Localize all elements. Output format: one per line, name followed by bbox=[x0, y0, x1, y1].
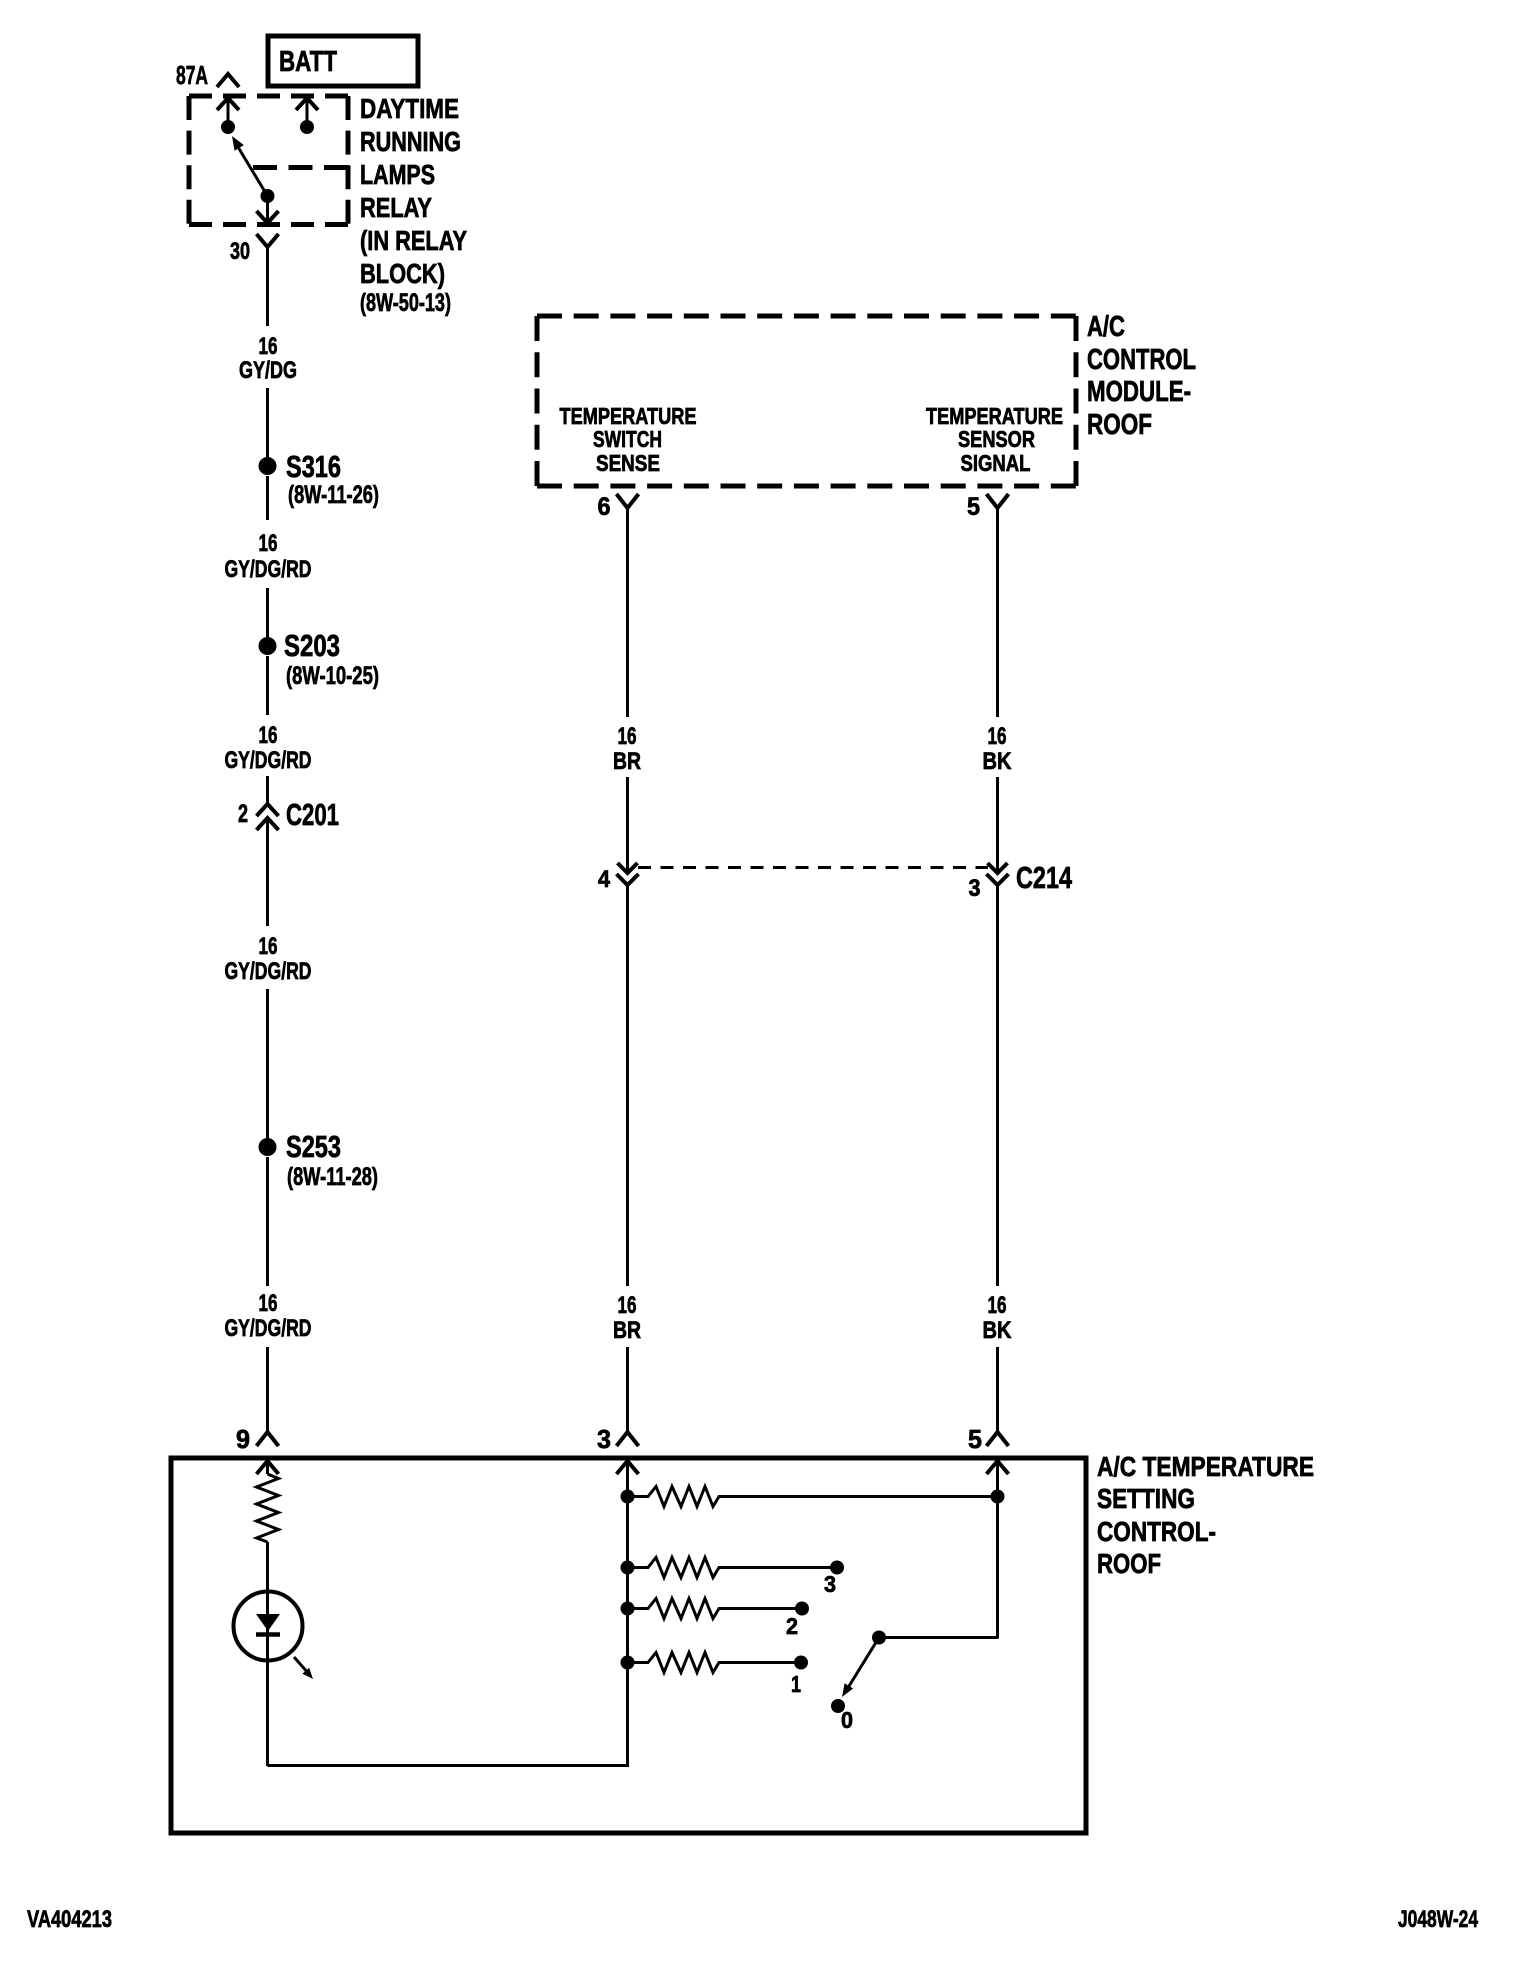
node pin3/R2 bbox=[621, 1490, 635, 1504]
module internal label: temperature switch sense bbox=[560, 403, 697, 476]
wire label 16 BR bbox=[613, 723, 641, 775]
relay battery feed pin arrow bbox=[296, 97, 318, 127]
node pin3/R3 bbox=[621, 1561, 635, 1575]
svg-text:0: 0 bbox=[841, 1707, 853, 1733]
svg-text:GY/DG/RD: GY/DG/RD bbox=[225, 958, 312, 985]
terminal 0 dot bbox=[831, 1699, 845, 1713]
svg-text:SENSOR: SENSOR bbox=[958, 426, 1035, 452]
module internal label: temperature sensor signal bbox=[926, 403, 1063, 476]
connector C214 dashed tie line bbox=[638, 866, 988, 869]
svg-text:30: 30 bbox=[230, 238, 250, 265]
A/C temperature setting control box bbox=[171, 1458, 1086, 1833]
svg-text:RELAY: RELAY bbox=[360, 192, 432, 223]
svg-text:BR: BR bbox=[613, 748, 641, 775]
wire pin30 down bbox=[266, 247, 269, 326]
svg-text:16: 16 bbox=[259, 1290, 278, 1317]
svg-text:BR: BR bbox=[613, 1317, 641, 1344]
svg-text:VA404213: VA404213 bbox=[27, 1906, 112, 1933]
connector C201 (in-line, pin 2) bbox=[238, 797, 339, 926]
node pin3/R5 bbox=[621, 1656, 635, 1670]
pin 5 column wire bbox=[996, 1461, 999, 1639]
box pin 9 terminal bbox=[236, 1424, 279, 1474]
wire label 16 GY/DG/RD bbox=[225, 530, 312, 583]
svg-text:2: 2 bbox=[786, 1613, 798, 1639]
wire label 16 BK bbox=[983, 723, 1013, 775]
resistor R5 (position 1) bbox=[628, 1653, 802, 1673]
rotary switch blade bbox=[842, 1638, 879, 1698]
wire to LED bbox=[266, 1542, 269, 1766]
svg-text:CONTROL: CONTROL bbox=[1087, 344, 1196, 376]
svg-text:16: 16 bbox=[259, 333, 278, 360]
svg-text:GY/DG/RD: GY/DG/RD bbox=[225, 1315, 312, 1342]
svg-text:3: 3 bbox=[824, 1571, 836, 1597]
A/C control module dashed box bbox=[537, 316, 1076, 486]
svg-text:(IN RELAY: (IN RELAY bbox=[360, 225, 467, 256]
module pin 5 terminal chevron bbox=[967, 493, 1009, 521]
svg-text:SWITCH: SWITCH bbox=[593, 426, 662, 452]
box pin 3 terminal bbox=[597, 1424, 639, 1474]
resistor R1 (vertical, pin 9 leg) bbox=[257, 1474, 279, 1542]
box pin 5 terminal bbox=[968, 1424, 1009, 1474]
connector C214 left half (pin 4) bbox=[598, 863, 639, 893]
terminal 2 dot bbox=[795, 1602, 809, 1616]
relay contact node common feed bbox=[300, 120, 314, 134]
svg-text:SETTING: SETTING bbox=[1097, 1483, 1195, 1514]
svg-text:(8W-10-25): (8W-10-25) bbox=[286, 662, 379, 690]
wire C214 pin4 down bbox=[626, 885, 629, 1286]
wire bbox=[266, 1157, 269, 1286]
svg-text:16: 16 bbox=[618, 723, 637, 750]
bottom wire LED to pin3 column bbox=[268, 1461, 628, 1766]
wire bbox=[266, 989, 269, 1138]
svg-text:ROOF: ROOF bbox=[1097, 1548, 1161, 1579]
wire bbox=[266, 776, 269, 804]
wire bbox=[266, 656, 269, 715]
wire bbox=[626, 1347, 629, 1432]
resistor R2 (row to pin 5) bbox=[628, 1487, 998, 1507]
svg-text:4: 4 bbox=[598, 866, 611, 893]
svg-text:(8W-50-13): (8W-50-13) bbox=[360, 289, 451, 317]
rotary wiper feed wire bbox=[879, 1636, 998, 1639]
wire bbox=[996, 777, 999, 873]
splice S253 bbox=[259, 1129, 379, 1191]
svg-text:BATT: BATT bbox=[279, 46, 337, 78]
svg-text:S316: S316 bbox=[286, 449, 341, 484]
wire label 16 GY/DG/RD bbox=[225, 1290, 312, 1342]
relay pin 87A terminal (chevron above box) bbox=[217, 74, 239, 87]
wire bbox=[266, 388, 269, 457]
svg-text:16: 16 bbox=[259, 722, 278, 749]
relay contact node 87A bbox=[221, 120, 235, 134]
box name text bbox=[1097, 1451, 1314, 1579]
wire bbox=[996, 1347, 999, 1432]
svg-text:DAYTIME: DAYTIME bbox=[360, 93, 459, 124]
svg-text:87A: 87A bbox=[176, 60, 208, 90]
svg-text:C201: C201 bbox=[286, 797, 339, 832]
wire from module pin 5 bbox=[996, 508, 999, 717]
relay pin 87A arrow inside bbox=[217, 97, 239, 127]
svg-text:9: 9 bbox=[236, 1424, 250, 1454]
relay common node 30 bbox=[261, 189, 275, 203]
node R2/pin5 column bbox=[991, 1490, 1005, 1504]
wire from module pin 6 bbox=[626, 508, 629, 717]
svg-text:BLOCK): BLOCK) bbox=[360, 258, 445, 289]
wire label 16 BR bbox=[613, 1292, 641, 1344]
svg-text:5: 5 bbox=[967, 493, 980, 521]
resistor R3 (position 3) bbox=[628, 1558, 838, 1578]
svg-text:BK: BK bbox=[983, 748, 1013, 775]
wire label 16 GY/DG bbox=[239, 333, 297, 384]
svg-text:3: 3 bbox=[969, 875, 981, 902]
svg-text:16: 16 bbox=[618, 1292, 637, 1319]
svg-text:GY/DG/RD: GY/DG/RD bbox=[225, 556, 312, 583]
svg-text:16: 16 bbox=[259, 933, 278, 960]
relay name text bbox=[360, 93, 467, 317]
relay pin 30 terminal (chevron below box) bbox=[257, 234, 279, 247]
relay switch blade bbox=[232, 136, 268, 196]
LED D1 (illumination) bbox=[234, 1592, 314, 1680]
wire bbox=[266, 588, 269, 637]
svg-text:A/C: A/C bbox=[1087, 311, 1125, 343]
relay inner partition dashed line bbox=[253, 165, 348, 170]
svg-text:(8W-11-28): (8W-11-28) bbox=[287, 1163, 378, 1191]
rotary switch pivot bbox=[872, 1631, 886, 1645]
svg-text:BK: BK bbox=[983, 1317, 1013, 1344]
module pin 6 terminal chevron bbox=[598, 493, 639, 521]
relay K1 dashed box (daytime running lamps relay) bbox=[189, 96, 348, 225]
splice S203 bbox=[259, 628, 380, 690]
wire label 16 GY/DG/RD bbox=[225, 722, 312, 774]
svg-text:S203: S203 bbox=[284, 628, 340, 663]
wire C214 pin3 down bbox=[996, 885, 999, 1286]
BATT feed box bbox=[268, 36, 418, 86]
wire bbox=[266, 1347, 269, 1432]
wire bbox=[266, 476, 269, 520]
svg-text:6: 6 bbox=[598, 493, 611, 521]
splice S316 bbox=[259, 449, 380, 509]
resistor R4 (position 2) bbox=[628, 1599, 803, 1619]
svg-text:S253: S253 bbox=[286, 1129, 341, 1164]
node pin3/R4 bbox=[621, 1602, 635, 1616]
wire label 16 BK bbox=[983, 1292, 1013, 1344]
svg-text:2: 2 bbox=[238, 800, 248, 828]
svg-text:16: 16 bbox=[259, 530, 278, 557]
svg-text:16: 16 bbox=[988, 723, 1007, 750]
svg-text:RUNNING: RUNNING bbox=[360, 126, 461, 157]
relay pin 30 arrow inside bbox=[257, 196, 279, 223]
module name text bbox=[1087, 311, 1196, 441]
terminal 3 dot bbox=[830, 1561, 844, 1575]
svg-text:ROOF: ROOF bbox=[1087, 409, 1152, 441]
svg-text:3: 3 bbox=[597, 1424, 611, 1454]
svg-text:CONTROL-: CONTROL- bbox=[1097, 1516, 1216, 1547]
svg-text:LAMPS: LAMPS bbox=[360, 159, 435, 190]
svg-text:(8W-11-26): (8W-11-26) bbox=[288, 481, 379, 509]
wire label 16 GY/DG/RD bbox=[225, 933, 312, 985]
svg-text:SENSE: SENSE bbox=[596, 450, 660, 476]
svg-text:MODULE-: MODULE- bbox=[1087, 376, 1191, 408]
svg-text:A/C TEMPERATURE: A/C TEMPERATURE bbox=[1097, 1451, 1314, 1482]
wire bbox=[626, 777, 629, 873]
svg-text:GY/DG/RD: GY/DG/RD bbox=[225, 747, 312, 774]
svg-text:SIGNAL: SIGNAL bbox=[961, 450, 1031, 476]
svg-text:16: 16 bbox=[988, 1292, 1007, 1319]
svg-text:1: 1 bbox=[791, 1671, 801, 1697]
terminal 1 dot bbox=[794, 1656, 808, 1670]
svg-text:J048W-24: J048W-24 bbox=[1398, 1906, 1478, 1933]
svg-text:GY/DG: GY/DG bbox=[239, 357, 297, 384]
svg-text:C214: C214 bbox=[1016, 860, 1073, 895]
svg-text:5: 5 bbox=[968, 1424, 982, 1454]
connector C214 right half (pin 3) bbox=[969, 860, 1073, 902]
